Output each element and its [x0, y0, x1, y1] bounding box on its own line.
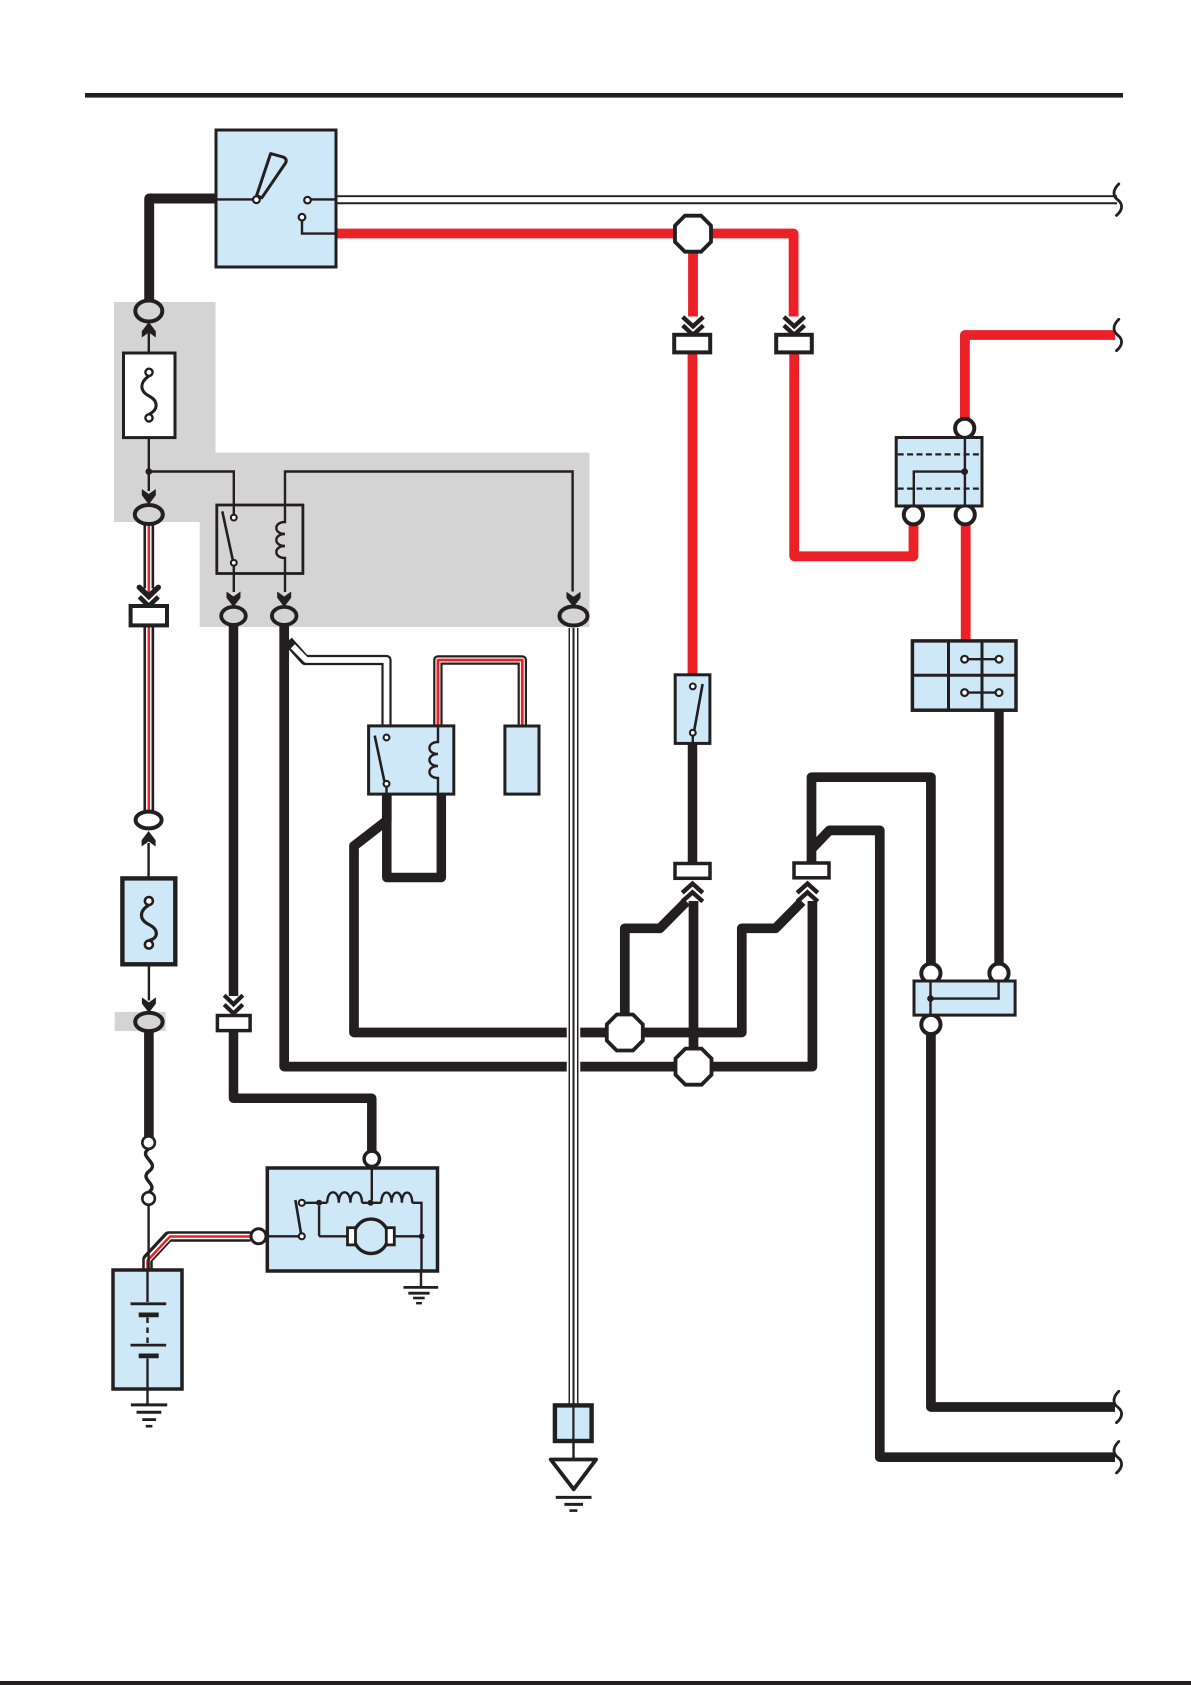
horn interior: contact-coil line — [266, 1203, 422, 1271]
arrow A1 (up arrow below E1) — [142, 322, 156, 338]
terminal E5 (horn switch wire) — [567, 592, 581, 608]
junction dots in horn — [316, 1200, 322, 1206]
ground under battery — [131, 1389, 167, 1426]
junction O2 (octagon on coil return bus) — [676, 1049, 712, 1085]
wire RW1: ignition ACC red feed right and down (red) — [336, 234, 794, 317]
wire RW5: relay output to dimmer switch (red) — [961, 524, 971, 641]
wire W14: diode block output long run to bottom break — [931, 1033, 1115, 1407]
wire S2: battery positive striped wire to horn — [148, 1237, 251, 1272]
wire: ignition double line to right break — [336, 195, 1117, 204]
wire W17: main battery lead (thick) — [144, 1030, 154, 1139]
ground under horn — [404, 1287, 439, 1303]
lead to ground triangle — [572, 1441, 574, 1458]
horn interior: feed lead — [371, 1168, 373, 1200]
connector R2 (near battery) with down chevrons — [217, 995, 250, 1030]
horn relay unit box (lower, blue) — [369, 726, 454, 794]
wire W2: relay switch output down to connector — [229, 621, 239, 996]
wire RW4: red feed to relay (lower route) — [794, 352, 913, 556]
wire W6: relay to horn-relay switch (white core double line) — [288, 641, 387, 725]
diode/resistor block (small blue) — [914, 964, 1015, 1034]
wire W1: ignition switch feed (thick) — [149, 199, 216, 302]
relay unit contacts — [384, 735, 390, 741]
relay block (top right, with dashed rows) — [896, 419, 982, 525]
break symbol (top double line) — [1114, 184, 1122, 215]
terminal E1 (battery lead grommet) — [135, 301, 162, 322]
bottom rule — [0, 1681, 1191, 1685]
arrow A4 (down arrow above E4) — [142, 997, 156, 1013]
connector R1red with down chevrons — [674, 317, 710, 353]
grey band behind E4 — [115, 1012, 166, 1031]
wire: thin branch from horn relay coil to right terminal — [285, 472, 573, 592]
wire S1: battery striped wire (black/red) left column — [143, 523, 154, 812]
battery — [113, 1270, 182, 1389]
ignition switch — [216, 130, 336, 267]
capacitor box — [505, 726, 539, 794]
horn relay coil — [276, 505, 285, 574]
dimmer/lighting switch box — [912, 641, 1016, 710]
wire W15: dimmer switch lead down to diode block — [994, 710, 1003, 964]
junction OC1 (octagon on red feed) — [675, 216, 711, 252]
wire: thin branch to horn relay switch contact — [149, 472, 234, 515]
connector R1 (left column white connector) — [131, 587, 167, 625]
wire W5: horn relay coil to capacitor (black/red striped) — [438, 660, 522, 725]
horn positive terminal (open circle, battery wire) — [251, 1229, 266, 1244]
ignition key lever — [257, 154, 287, 198]
junction block shading (wide block) — [200, 453, 590, 627]
wire W12: connector up and right to diode block — [812, 777, 931, 964]
flexible lead circles and squiggle above battery — [142, 1136, 155, 1149]
wire W7: relay coil return down, right along bus, up to connector — [284, 621, 812, 1067]
wire W10: horn relay coil lead U-link — [387, 793, 442, 878]
horn relay (in junction block) — [217, 505, 303, 574]
horn button connector (blue square) — [555, 1405, 592, 1441]
wire W3: connector to horn feed — [234, 1030, 372, 1151]
horn coil windings — [327, 1192, 362, 1203]
wire RW6: relay top feed from right break (red) — [965, 335, 1115, 419]
junction block shading (left strip) — [114, 302, 216, 522]
break symbol (upper bottom-right wire) — [1114, 1391, 1122, 1422]
wire W11: from connector down to junction O2 — [689, 901, 699, 1054]
wire: thin lead below horn relay coil — [284, 574, 286, 593]
horn relay switch blade — [222, 511, 233, 561]
top rule — [85, 93, 1123, 98]
connector RC2 (white) with up chevrons — [794, 863, 829, 902]
fuse F1 (HORN fuse, white box) — [124, 353, 176, 438]
wire: fuse feed thin line (fusible link to fuse) — [147, 330, 150, 1001]
terminal Ea1 (relay switch output) — [227, 592, 241, 608]
terminal E4 (grey grommet) — [135, 1013, 162, 1031]
wire RW3: red feed to flasher switch — [688, 352, 698, 676]
break symbol (red accessory wire) — [1114, 319, 1122, 350]
horn points (switch) — [295, 1200, 301, 1234]
ignition pivot contact — [253, 196, 260, 203]
wire RW2: red drop from junction to connector — [688, 234, 698, 317]
ignition contact 1 (IG) — [304, 197, 311, 204]
flasher/horn button switch box — [675, 675, 710, 744]
break symbol (lower bottom-right wire) — [1114, 1442, 1122, 1473]
wire W8: horn relay switch lead down to bus and staircase to connector — [354, 793, 802, 1033]
horn relay switch contacts — [231, 515, 237, 521]
ground triangle (horn button ground) — [551, 1460, 596, 1490]
horn feed terminal — [364, 1151, 379, 1166]
wire W16: flasher switch output to connector — [688, 743, 698, 866]
relay unit coil — [429, 726, 438, 794]
node: junction dot at fuse output — [146, 468, 153, 475]
terminal E2 (ring terminal above striped wire) — [142, 489, 156, 505]
terminal Ea2 (relay coil output) — [277, 592, 291, 608]
wire W4: horn switch wire (white with black tracer) with halo — [567, 628, 581, 1406]
arrow A3 (up arrow below E3) — [142, 831, 156, 847]
wire W9: staircase from junction O1 to connector — [625, 902, 687, 1018]
fuse F2 (fusible link, blue box) — [122, 878, 175, 964]
connector RC1 (white) with up chevrons — [675, 864, 710, 902]
relay unit switch blade — [375, 736, 385, 781]
junction O1 (octagon on horn wire bus) — [607, 1015, 643, 1051]
horn ground lead — [420, 1271, 422, 1287]
ignition switch pole lead — [216, 198, 253, 200]
ignition contact 2 (ACC) — [299, 214, 306, 221]
connector R2red with down chevrons — [776, 317, 812, 353]
horn motor armature — [354, 1219, 388, 1253]
terminal E3 — [136, 812, 162, 829]
horn assembly box — [266, 1151, 438, 1287]
wire: thin lead below horn relay switch — [233, 566, 235, 593]
wire W13: branch jog right and long run to bottom break — [812, 830, 1116, 1457]
